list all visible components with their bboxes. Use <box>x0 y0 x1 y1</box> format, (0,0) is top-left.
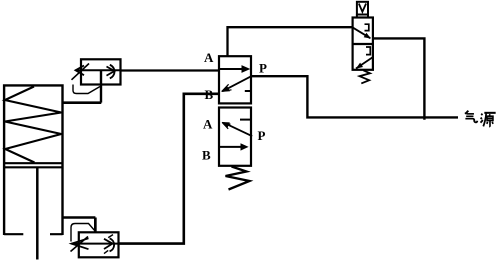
svg-text:B: B <box>205 87 214 102</box>
svg-text:P: P <box>258 128 266 143</box>
svg-text:A: A <box>204 50 214 65</box>
svg-text:A: A <box>203 117 213 132</box>
svg-text:P: P <box>259 61 267 76</box>
svg-text:B: B <box>202 148 211 163</box>
